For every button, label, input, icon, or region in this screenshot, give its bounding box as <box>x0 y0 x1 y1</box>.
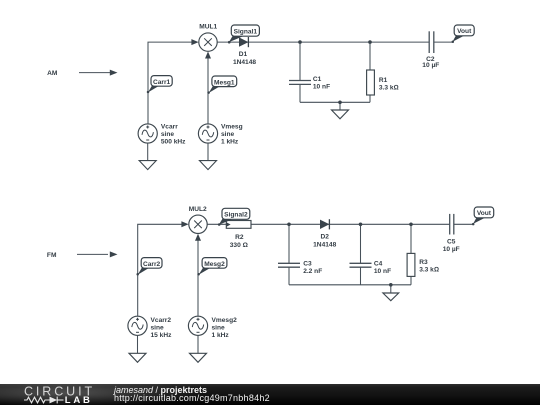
svg-text:Signal1: Signal1 <box>234 29 258 36</box>
svg-text:1N4148: 1N4148 <box>313 242 336 249</box>
svg-text:http://circuitlab.com/cg49m7nb: http://circuitlab.com/cg49m7nbh84h2 <box>114 393 270 403</box>
svg-text:Mesg1: Mesg1 <box>214 79 235 86</box>
svg-text:1 kHz: 1 kHz <box>212 332 230 339</box>
svg-text:15 kHz: 15 kHz <box>151 332 173 339</box>
svg-text:C1: C1 <box>313 76 322 83</box>
svg-text:Signal2: Signal2 <box>224 212 248 219</box>
svg-text:sine: sine <box>161 131 175 138</box>
svg-text:Vmesg2: Vmesg2 <box>212 317 238 324</box>
svg-text:Carr2: Carr2 <box>143 261 161 268</box>
svg-text:LAB: LAB <box>65 395 93 405</box>
svg-text:3.3 kΩ: 3.3 kΩ <box>379 84 399 91</box>
svg-text:C4: C4 <box>374 261 383 268</box>
svg-text:Vcarr: Vcarr <box>161 123 178 130</box>
svg-text:R1: R1 <box>379 77 388 84</box>
svg-text:2.2 nF: 2.2 nF <box>303 268 322 275</box>
svg-text:Mesg2: Mesg2 <box>204 261 225 268</box>
svg-text:AM: AM <box>47 70 58 77</box>
svg-text:Carr1: Carr1 <box>153 79 171 86</box>
svg-text:C3: C3 <box>303 261 312 268</box>
svg-text:C5: C5 <box>447 239 456 246</box>
svg-text:10 nF: 10 nF <box>313 84 330 91</box>
svg-text:Vmesg: Vmesg <box>221 123 243 130</box>
svg-text:sine: sine <box>221 131 235 138</box>
svg-text:3.3 kΩ: 3.3 kΩ <box>419 267 439 274</box>
svg-text:10 µF: 10 µF <box>443 246 460 253</box>
svg-text:1N4148: 1N4148 <box>233 59 256 66</box>
svg-text:1 kHz: 1 kHz <box>221 138 239 145</box>
svg-text:Vcarr2: Vcarr2 <box>151 317 172 324</box>
svg-text:MUL1: MUL1 <box>199 23 217 30</box>
svg-text:sine: sine <box>151 324 165 331</box>
svg-text:D2: D2 <box>320 233 329 240</box>
svg-text:Vout: Vout <box>457 28 472 35</box>
svg-text:Vout: Vout <box>477 210 492 217</box>
svg-text:R2: R2 <box>235 234 244 241</box>
svg-text:330 Ω: 330 Ω <box>230 242 249 249</box>
svg-text:10 nF: 10 nF <box>374 268 391 275</box>
svg-text:MUL2: MUL2 <box>189 206 207 213</box>
svg-text:FM: FM <box>47 252 57 259</box>
svg-text:10 µF: 10 µF <box>422 62 439 69</box>
svg-text:R3: R3 <box>419 259 428 266</box>
svg-text:sine: sine <box>212 324 226 331</box>
svg-text:D1: D1 <box>239 51 248 58</box>
svg-text:500 kHz: 500 kHz <box>161 138 186 145</box>
